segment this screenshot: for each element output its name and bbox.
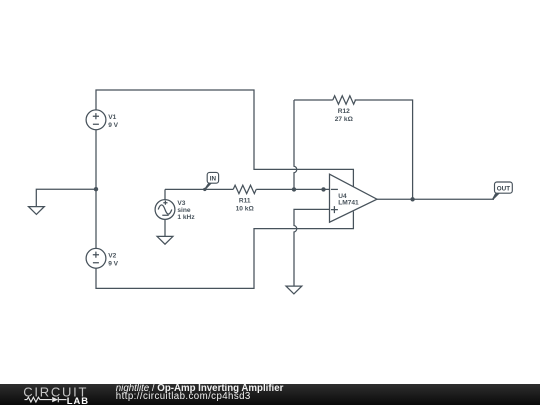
footer bar <box>0 384 540 405</box>
svg-text:V3: V3 <box>177 200 185 207</box>
voltage source V2 <box>86 248 106 268</box>
label V2 value <box>108 252 118 267</box>
node junction at opamp input pin <box>321 187 325 191</box>
ground (under op-amp) <box>286 286 302 294</box>
flag OUT <box>492 182 512 200</box>
svg-text:LAB: LAB <box>67 395 89 405</box>
ground (left) <box>29 207 45 215</box>
wire R11 to opamp inverting input <box>256 188 329 190</box>
label V1 value <box>108 114 118 129</box>
svg-text:10 kΩ: 10 kΩ <box>236 205 255 212</box>
svg-text:V1: V1 <box>108 114 116 121</box>
svg-text:V2: V2 <box>108 252 116 259</box>
voltage source V1 <box>86 110 106 130</box>
wire input net: V3 to R11 <box>165 188 233 190</box>
CircuitLab logo <box>0 384 100 405</box>
svg-text:LM741: LM741 <box>338 199 359 206</box>
label U4 <box>338 193 359 207</box>
wire bottom rail V- : V2 bottom to opamp V- pin <box>96 211 353 288</box>
wire junction to ground stub <box>36 189 96 206</box>
svg-text:OUT: OUT <box>497 185 510 192</box>
resistor R12 <box>333 96 356 104</box>
svg-text:9 V: 9 V <box>108 260 118 267</box>
svg-text:IN: IN <box>210 176 217 183</box>
svg-text:R12: R12 <box>338 108 350 115</box>
resistor R11 <box>233 185 256 193</box>
node junction at V1/V2 midpoint <box>94 187 98 191</box>
wire R12 to output vertical <box>355 100 413 199</box>
svg-text:9 V: 9 V <box>108 122 118 129</box>
svg-text:R11: R11 <box>239 198 251 205</box>
flag IN <box>203 172 218 191</box>
label R11 value <box>236 198 255 213</box>
node junction output/feedback <box>410 197 414 201</box>
wire noninverting input to ground (with hop over V- rail) <box>294 209 330 286</box>
svg-text:27 kΩ: 27 kΩ <box>335 116 354 123</box>
svg-text:1 kHz: 1 kHz <box>177 214 195 221</box>
voltage source V3 (sine) <box>155 200 175 220</box>
wire feedback top to R12 <box>294 99 333 101</box>
wire V3 bottom stub <box>164 219 166 236</box>
op-amp U4 <box>330 174 378 222</box>
wire top rail V+ : V1 top to opamp V+ pin <box>96 90 353 187</box>
node junction feedback/input <box>292 187 296 191</box>
ground (under V3) <box>157 236 173 244</box>
wire output net <box>377 198 494 200</box>
wire feedback vertical (with hop over V+ rail) <box>294 100 297 189</box>
label R12 value <box>335 108 354 123</box>
wire V1 bottom to V2 top <box>95 130 97 249</box>
wire V3 top stub <box>164 189 166 199</box>
label V3 value <box>177 200 195 221</box>
